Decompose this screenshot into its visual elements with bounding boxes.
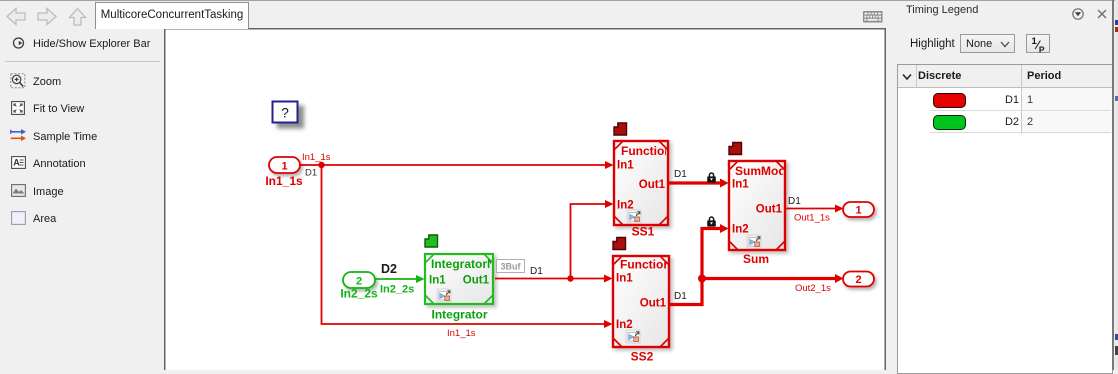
annotation ?-box xyxy=(273,102,298,123)
1/P button xyxy=(1026,34,1050,53)
tag 3Buf xyxy=(497,260,525,273)
svg-text:In2_2s: In2_2s xyxy=(380,284,414,296)
block Integrator xyxy=(425,254,517,304)
back arrow xyxy=(7,9,25,25)
menu item Sample Time xyxy=(33,131,97,143)
svg-text:Out1_1s: Out1_1s xyxy=(794,213,830,224)
svg-text:D1: D1 xyxy=(530,266,543,277)
panel menu icon xyxy=(1072,8,1084,20)
top toolbar band xyxy=(0,0,886,30)
outport 2 oval xyxy=(843,272,874,287)
wire junction up to SS1.In2 xyxy=(571,200,614,279)
menu item Hide/Show Explorer Bar xyxy=(33,38,150,50)
node junction integrator out xyxy=(567,275,573,281)
keyboard icon xyxy=(863,11,883,23)
svg-text:3Buf: 3Buf xyxy=(501,262,522,272)
wire junction to outport 2 thick xyxy=(702,274,844,283)
svg-text:In1: In1 xyxy=(429,275,446,287)
right panel background xyxy=(886,0,1118,370)
svg-text:1: 1 xyxy=(281,161,287,173)
legend table xyxy=(897,64,1113,374)
svg-text:Out2_1s: Out2_1s xyxy=(795,283,831,294)
svg-text:SS1: SS1 xyxy=(632,225,655,239)
row D1 xyxy=(930,110,1111,111)
wire In1_1s horizontal xyxy=(300,161,614,169)
block Sum xyxy=(729,161,793,250)
far right window sliver xyxy=(1112,0,1114,370)
svg-text:D1: D1 xyxy=(305,168,317,179)
svg-text:In1_1s: In1_1s xyxy=(265,174,303,188)
up arrow xyxy=(70,9,86,26)
forward arrow xyxy=(38,9,56,25)
document tab xyxy=(95,2,249,29)
menu item Image xyxy=(33,186,64,198)
menu separator xyxy=(5,61,160,62)
panel title xyxy=(906,4,978,16)
wire SS1.Out1 to Sum.In1 thick xyxy=(668,179,729,188)
svg-text:Integrator: Integrator xyxy=(431,308,487,322)
table header xyxy=(898,65,1112,88)
menu item Fit to View xyxy=(33,103,84,115)
svg-text:Out1: Out1 xyxy=(640,298,667,310)
svg-text:In2_2s: In2_2s xyxy=(340,287,378,301)
svg-text:D1: D1 xyxy=(788,196,801,207)
svg-text:In1_1s: In1_1s xyxy=(447,328,476,339)
svg-text:?: ? xyxy=(281,105,289,121)
svg-text:2: 2 xyxy=(855,274,861,286)
menu item Annotation xyxy=(33,158,86,170)
svg-text:Out1: Out1 xyxy=(756,204,783,216)
wire Sum.Out1 to outport 1 xyxy=(785,205,844,213)
svg-text:1: 1 xyxy=(855,205,861,217)
lock icon 1 xyxy=(707,173,716,183)
svg-text:D1: D1 xyxy=(674,169,687,180)
svg-text:D2: D2 xyxy=(381,262,397,276)
column divider xyxy=(1021,65,1022,134)
block SS1 xyxy=(614,141,672,225)
svg-text:In1_1s: In1_1s xyxy=(302,152,331,163)
svg-text:Function: Function xyxy=(621,144,672,158)
row D2 xyxy=(930,132,1111,133)
node junction SS2 out xyxy=(698,275,706,283)
block SS2 xyxy=(613,256,671,347)
svg-text:D1: D1 xyxy=(674,291,687,302)
svg-text:In2: In2 xyxy=(732,224,749,236)
node junction on In1 wire xyxy=(318,162,324,168)
svg-text:A: A xyxy=(13,158,20,168)
inport 2 oval green xyxy=(343,272,375,288)
greenflag Integrator xyxy=(425,235,438,247)
inport 1 oval xyxy=(269,157,300,173)
wire In1 to SS2.In2 xyxy=(322,165,613,328)
redflag SS2 xyxy=(613,238,626,250)
canvas frame xyxy=(165,29,886,370)
svg-text:Out1: Out1 xyxy=(639,179,666,191)
redflag SS1 xyxy=(614,123,627,135)
svg-text:Out1: Out1 xyxy=(463,275,490,287)
svg-text:SS2: SS2 xyxy=(631,350,654,364)
menu item Area xyxy=(33,213,56,225)
svg-text:Sum: Sum xyxy=(743,252,769,266)
menu item Zoom xyxy=(33,76,61,88)
svg-text:In1: In1 xyxy=(732,179,749,191)
wire Integrator.Out1 to SS2.In1 xyxy=(495,275,613,283)
svg-text:In2: In2 xyxy=(616,319,633,331)
svg-text:In1: In1 xyxy=(616,273,633,285)
panel close icon xyxy=(1097,9,1107,19)
svg-text:Function: Function xyxy=(620,258,671,272)
wire In2 to Integrator xyxy=(375,275,425,283)
outport 1 oval xyxy=(843,202,874,217)
highlight label xyxy=(910,38,955,50)
redflag Sum xyxy=(729,143,742,155)
svg-text:In1: In1 xyxy=(617,160,634,172)
nav arrows xyxy=(4,7,90,26)
highlight dropdown xyxy=(960,34,1015,53)
lock icon 2 xyxy=(707,217,716,227)
canvas xyxy=(164,28,886,370)
wire SS2.Out1 to Sum.In2 thick xyxy=(669,224,729,305)
left sidebar menu xyxy=(0,28,164,370)
